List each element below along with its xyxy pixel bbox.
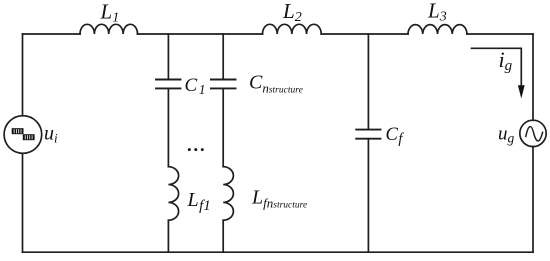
wire top-left segment (23, 33, 81, 35)
arrowhead of i_g (518, 85, 525, 98)
PWM symbol in u_i: lower rect (23, 134, 35, 140)
wire top between L2 and L3 (321, 33, 408, 35)
svg-text:ig: ig (499, 47, 513, 74)
svg-text:Lf1: Lf1 (187, 189, 211, 214)
wire branch Cf top (367, 34, 369, 130)
capacitor Cf plates (356, 129, 380, 131)
svg-text:L1: L1 (100, 0, 120, 25)
wire branch Cf bottom (367, 139, 369, 253)
wire branch B middle (222, 88, 224, 166)
wire top between L1 and L2 (138, 33, 263, 35)
inductor L1 (80, 24, 138, 34)
wire branch B bottom (222, 220, 224, 252)
source u_i circle (4, 116, 42, 154)
wire top-right segment (467, 33, 533, 35)
svg-text:L3: L3 (427, 0, 447, 25)
svg-text:L2: L2 (282, 0, 302, 25)
source u_g circle (520, 120, 546, 146)
svg-text:ug: ug (498, 124, 515, 146)
node branch A top wire (167, 34, 169, 80)
inductor Lfn (223, 167, 233, 221)
wire left upper (22, 34, 24, 116)
svg-text:ui: ui (44, 123, 58, 146)
wire right lower (532, 147, 534, 253)
wire bottom (23, 251, 534, 253)
svg-text:Cf: Cf (386, 125, 405, 147)
inductor L2 (263, 24, 322, 34)
current arrow i_g wire (472, 48, 522, 86)
sine inside u_g (526, 127, 543, 141)
svg-text:Lfnstructure: Lfnstructure (251, 187, 307, 211)
ellipsis dots (188, 148, 191, 151)
node branch B top wire (222, 34, 224, 80)
inductor L3 (408, 25, 467, 34)
PWM symbol in u_i: upper rect (12, 128, 24, 134)
wire right upper (532, 34, 534, 120)
capacitor Cn plates (211, 79, 236, 81)
svg-text:Cnstructure: Cnstructure (249, 72, 303, 96)
svg-text:C1: C1 (185, 75, 206, 97)
inductor Lf1 (168, 167, 178, 221)
wire branch A bottom (167, 220, 169, 252)
wire left lower (22, 153, 24, 252)
wire branch A middle (167, 88, 169, 166)
capacitor C1 plates (156, 79, 181, 81)
